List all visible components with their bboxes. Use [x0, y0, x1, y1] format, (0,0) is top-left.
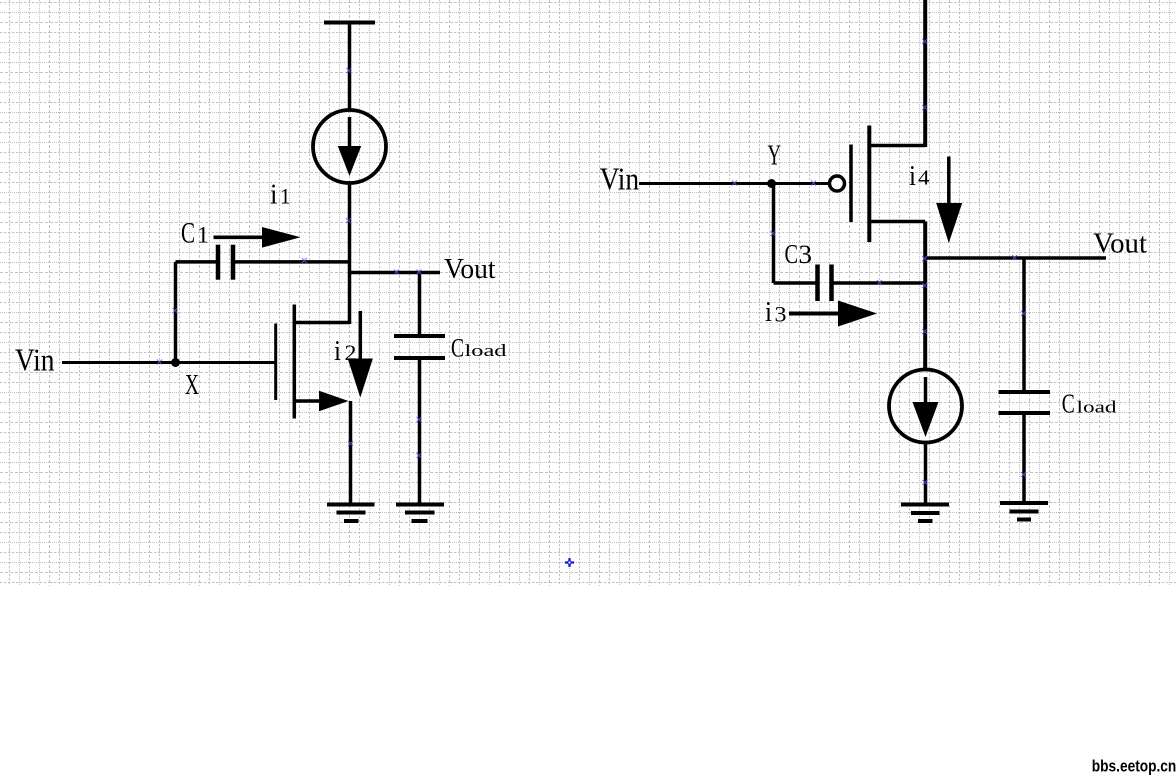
label i3 — [765, 296, 787, 328]
wire Vout to Cload (right) — [1022, 258, 1026, 391]
wire VDD stem — [348, 23, 352, 110]
label i1 — [270, 179, 291, 211]
arrow i3 — [789, 301, 877, 327]
label Cload (left) — [451, 332, 507, 362]
svg-text:Vout: Vout — [1093, 228, 1147, 260]
ground G2 — [396, 505, 444, 522]
wire VDD rail down to M2 drain — [923, 0, 927, 147]
wire Cload to ground — [418, 360, 422, 504]
wire Vin (right) — [639, 182, 830, 185]
label C3 — [785, 239, 813, 269]
capacitor C3 — [774, 265, 926, 302]
grid background — [0, 0, 1176, 586]
svg-text:Vin: Vin — [600, 161, 640, 197]
label C1 — [181, 218, 209, 250]
wire Vout (right) — [925, 256, 1106, 259]
svg-text:bbs.eetop.cn: bbs.eetop.cn — [1092, 756, 1176, 775]
blue node markers — [157, 39, 1026, 485]
capacitor Cload (right) — [999, 392, 1051, 413]
wire M2 source down to current source — [923, 222, 927, 371]
svg-text:3: 3 — [799, 240, 813, 269]
node Y junction dot — [767, 179, 776, 188]
svg-text:Vout: Vout — [444, 253, 496, 285]
ground G3 — [901, 505, 949, 522]
svg-text:3: 3 — [775, 302, 787, 327]
transistor M1 (NMOS) — [276, 305, 350, 419]
wire Vout — [350, 271, 441, 274]
svg-text:i: i — [270, 179, 278, 211]
wire M1 source to ground — [349, 401, 353, 504]
svg-text:C: C — [181, 218, 195, 250]
arrow i1 — [214, 227, 301, 248]
svg-text:i: i — [334, 335, 341, 367]
label Cload (right) — [1062, 388, 1117, 419]
svg-text:Vin: Vin — [15, 342, 55, 378]
current source I2 — [889, 370, 962, 443]
wire Vin to gate — [62, 361, 276, 364]
svg-text:4: 4 — [918, 166, 930, 190]
label i2 — [334, 335, 357, 367]
node X junction dot — [171, 358, 180, 367]
ground G1 — [327, 505, 375, 522]
svg-text:load: load — [465, 341, 508, 360]
svg-text:X: X — [185, 369, 199, 401]
wire Vout to Cload — [418, 273, 422, 335]
svg-text:1: 1 — [280, 184, 291, 209]
svg-text:C: C — [785, 239, 799, 269]
capacitor Cload (left) — [394, 336, 445, 358]
wire current source to drain node — [348, 183, 352, 324]
wire Cload to ground (right) — [1022, 415, 1026, 502]
VDD supply bar — [324, 21, 375, 25]
svg-text:load: load — [1077, 398, 1118, 417]
svg-text:1: 1 — [197, 223, 209, 248]
wire current source to ground — [924, 443, 928, 505]
svg-text:i: i — [765, 296, 772, 328]
svg-text:C: C — [1062, 388, 1075, 419]
transistor M2 (PMOS) — [830, 126, 926, 243]
wire node Y down to C3 — [772, 184, 776, 284]
label i4 — [909, 160, 930, 192]
svg-text:i: i — [909, 160, 916, 192]
svg-text:Y: Y — [768, 141, 782, 172]
ground G4 — [1000, 503, 1048, 520]
svg-text:2: 2 — [345, 340, 357, 365]
blue cursor cross — [565, 558, 574, 567]
capacitor C1 — [176, 245, 350, 280]
current source I1 — [313, 110, 386, 183]
wire C1 left plate down to node X — [174, 262, 178, 363]
svg-text:C: C — [451, 332, 464, 362]
arrow i2 — [348, 311, 373, 398]
arrow i4 — [936, 157, 962, 244]
